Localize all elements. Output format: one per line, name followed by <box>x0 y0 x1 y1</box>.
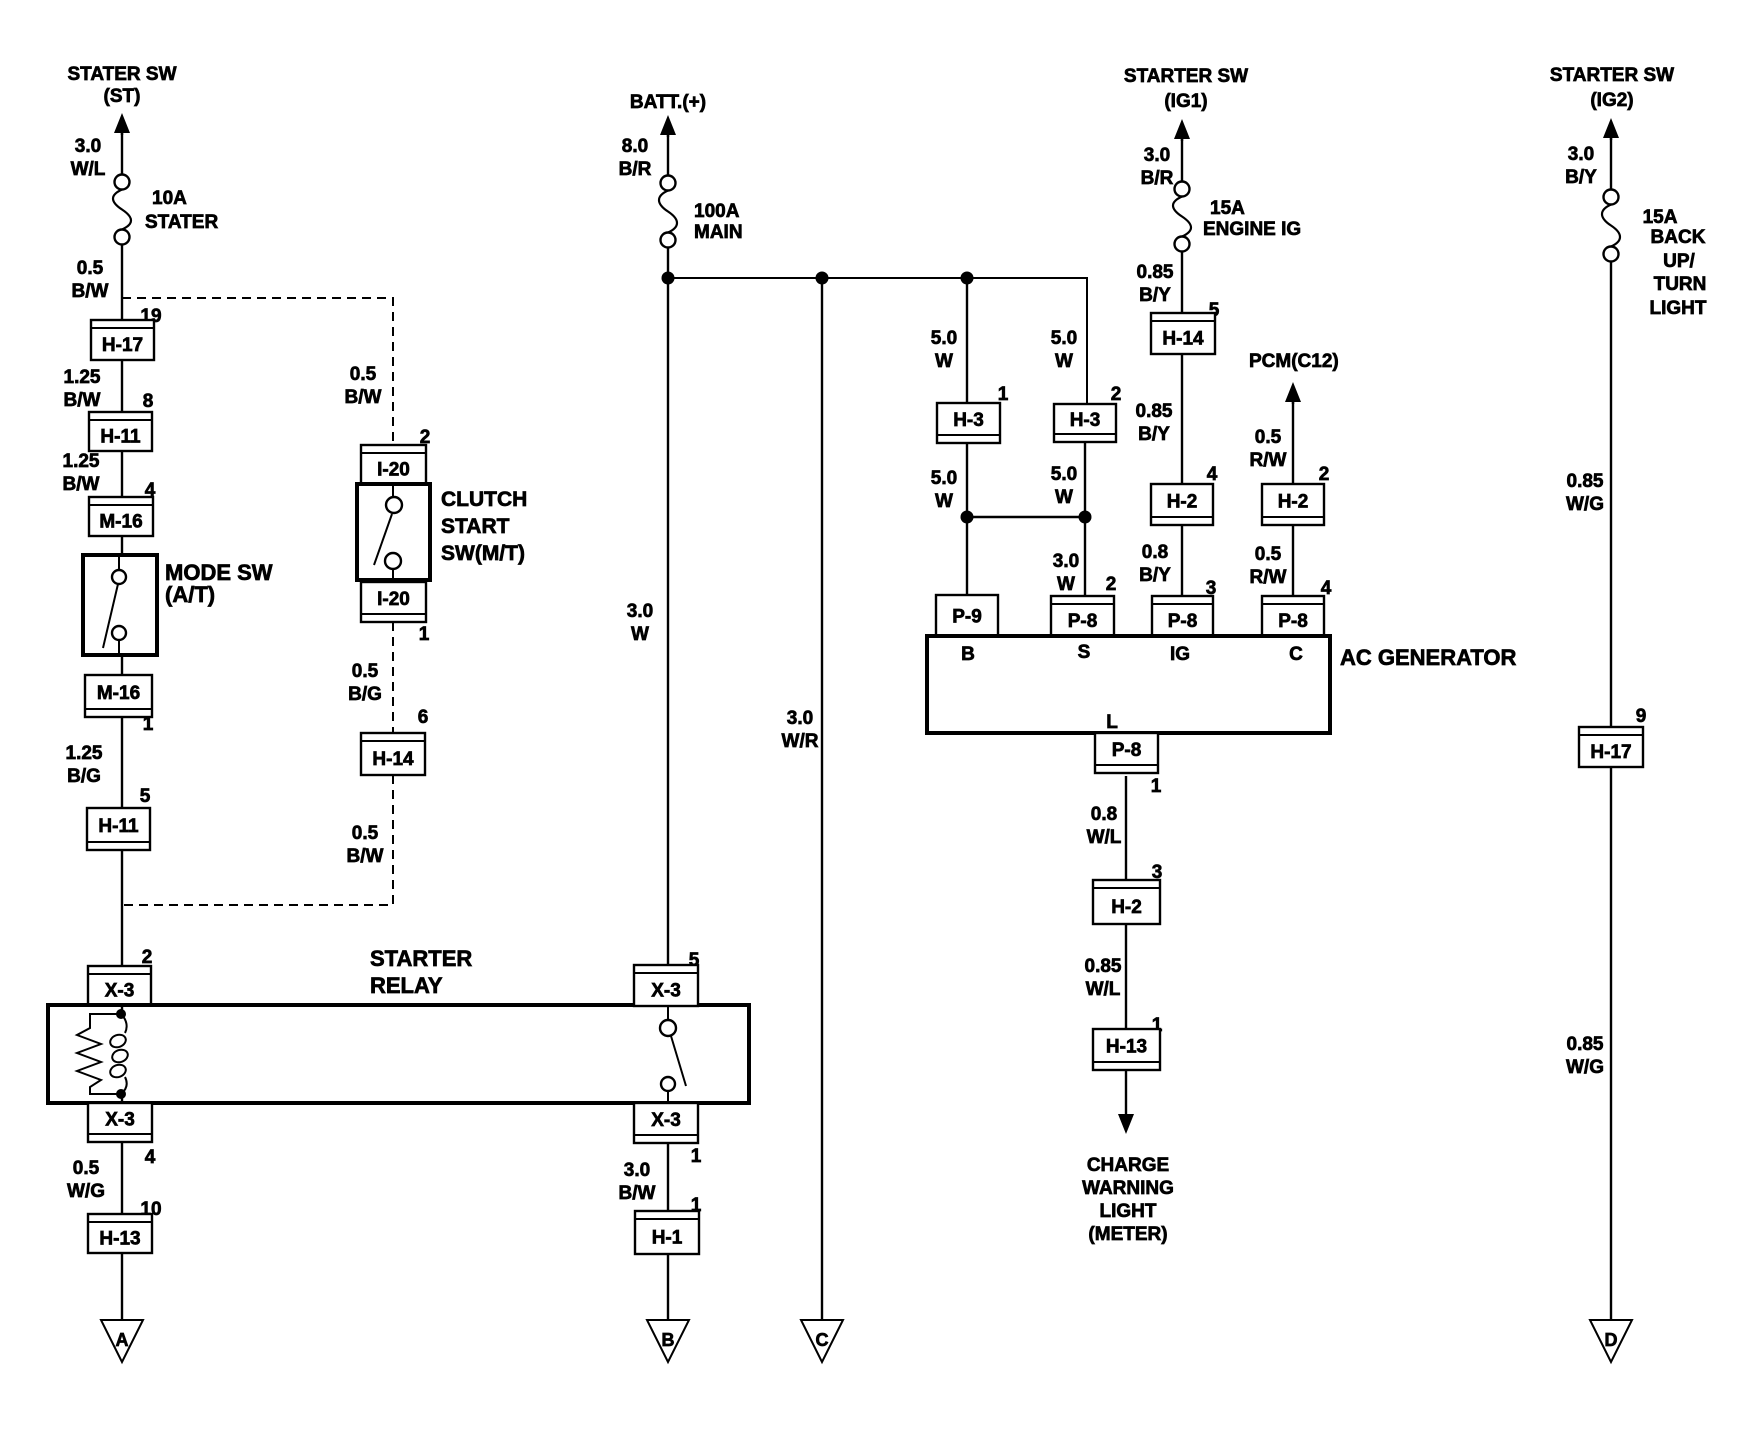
wire BATT column down to relay X-3 pin 5 <box>667 278 669 965</box>
svg-text:X-3: X-3 <box>651 981 681 1002</box>
wire H-14 to H-2 <box>1181 354 1183 484</box>
svg-text:1: 1 <box>143 714 154 735</box>
svg-text:TURN: TURN <box>1654 274 1707 295</box>
pin 1 of H-1 <box>691 1195 702 1216</box>
connector P-8 (IG) <box>1152 596 1213 636</box>
wire label 1.25 B/W <box>64 367 101 411</box>
svg-text:LIGHT: LIGHT <box>1100 1201 1157 1222</box>
svg-text:M-16: M-16 <box>97 683 140 704</box>
connector H-13 (charge) <box>1093 1029 1160 1070</box>
connector M-16 <box>89 497 153 536</box>
svg-text:H-2: H-2 <box>1167 492 1198 513</box>
svg-text:W/L: W/L <box>1087 827 1122 848</box>
svg-text:0.8: 0.8 <box>1142 542 1168 563</box>
wire relay coil top stub <box>121 1005 123 1016</box>
connector X-3 (relay contact top) <box>634 965 698 1006</box>
svg-text:H-17: H-17 <box>1590 742 1631 763</box>
node junction bottom of relay coil <box>116 1089 126 1099</box>
wire P-8 L to H-2 <box>1125 776 1127 880</box>
svg-text:W: W <box>1055 351 1073 372</box>
svg-text:15A: 15A <box>1210 198 1245 219</box>
connector H-1 <box>635 1211 699 1254</box>
svg-text:0.5: 0.5 <box>350 364 377 385</box>
svg-text:M-16: M-16 <box>99 512 142 533</box>
svg-text:I-20: I-20 <box>377 589 410 610</box>
svg-text:B/G: B/G <box>67 766 101 787</box>
connector H-2 (PCM) <box>1262 484 1324 525</box>
pin 1 of X-3 (lower) <box>691 1146 702 1167</box>
pin 5 of H-11 (lower) <box>140 786 151 807</box>
connector X-3 (relay coil bottom) <box>88 1103 152 1142</box>
wire H-1 to ground ref B <box>667 1254 669 1320</box>
svg-text:W: W <box>1055 487 1073 508</box>
svg-text:0.5: 0.5 <box>352 661 379 682</box>
svg-text:0.85: 0.85 <box>1085 956 1122 977</box>
svg-text:L: L <box>1106 712 1118 733</box>
wire label 0.85 W/L <box>1085 956 1122 1000</box>
fuse 15A BACK UP/TURN LIGHT <box>1602 190 1620 262</box>
svg-text:0.85: 0.85 <box>1136 401 1173 422</box>
wire label 3.0 W/R <box>782 708 819 752</box>
svg-text:B/Y: B/Y <box>1139 285 1171 306</box>
terminal S label <box>1078 642 1091 663</box>
svg-text:0.85: 0.85 <box>1567 1034 1604 1055</box>
svg-text:C: C <box>1289 644 1303 665</box>
svg-text:1.25: 1.25 <box>63 451 100 472</box>
svg-text:0.5: 0.5 <box>352 823 379 844</box>
wire H-13 to charge warning light + arrowhead <box>1118 1070 1134 1134</box>
svg-text:X-3: X-3 <box>651 1110 681 1131</box>
relay STARTER RELAY box <box>48 1005 749 1103</box>
svg-text:3.0: 3.0 <box>787 708 813 729</box>
wire H-11 to M-16 <box>121 451 123 497</box>
svg-text:1: 1 <box>691 1146 702 1167</box>
svg-text:(ST): (ST) <box>104 86 141 107</box>
wire H-17 to H-11 <box>121 360 123 412</box>
label 15A BACK UP/ TURN LIGHT <box>1643 207 1707 319</box>
node junction bus at H-3 column <box>961 272 974 285</box>
svg-text:UP/: UP/ <box>1663 251 1695 272</box>
svg-text:W: W <box>631 624 649 645</box>
svg-text:5.0: 5.0 <box>931 468 957 489</box>
svg-text:1.25: 1.25 <box>64 367 101 388</box>
svg-text:H-17: H-17 <box>102 335 143 356</box>
wire label 0.5 B/W <box>72 258 109 302</box>
svg-text:3.0: 3.0 <box>624 1160 650 1181</box>
connector I-20 (upper) <box>361 445 426 484</box>
wire label 0.85 W/G (1) <box>1566 471 1604 515</box>
svg-text:LIGHT: LIGHT <box>1650 298 1707 319</box>
connector P-8 (C) <box>1262 596 1324 636</box>
label STARTER RELAY <box>370 946 472 998</box>
wire label 3.0 B/Y <box>1565 144 1597 188</box>
svg-text:X-3: X-3 <box>105 1110 135 1131</box>
svg-text:W/G: W/G <box>67 1181 105 1202</box>
svg-text:CHARGE: CHARGE <box>1087 1155 1169 1176</box>
wire X-3 to H-13 <box>121 1142 123 1214</box>
wire bus to H-3 pin 1 <box>966 278 968 403</box>
pin 1 of P-8 (L) <box>1151 776 1162 797</box>
svg-text:H-1: H-1 <box>652 1228 683 1249</box>
node ground ref C <box>801 1320 843 1362</box>
svg-text:1.25: 1.25 <box>66 743 103 764</box>
dashed wire branch to clutch start switch (upper) <box>122 298 393 445</box>
node ground ref D <box>1590 1320 1632 1362</box>
connector H-3 (1) <box>937 403 1000 443</box>
wire label 5.0 W (2) <box>931 468 957 512</box>
switch CLUTCH START SW (M/T) <box>357 484 430 580</box>
svg-text:0.85: 0.85 <box>1567 471 1604 492</box>
svg-text:P-8: P-8 <box>1168 611 1198 632</box>
svg-text:3.0: 3.0 <box>1053 551 1079 572</box>
connector I-20 (lower) <box>361 582 426 622</box>
svg-text:3.0: 3.0 <box>75 136 101 157</box>
svg-text:H-2: H-2 <box>1111 897 1142 918</box>
svg-text:SW(M/T): SW(M/T) <box>441 542 525 565</box>
wire label 1.25 B/G <box>66 743 103 787</box>
wire label 1.25 B/W (2) <box>63 451 100 495</box>
connector X-3 (relay contact bottom) <box>634 1103 698 1143</box>
pin 10 of H-13 <box>140 1199 161 1220</box>
wire fuse to bus junction <box>667 248 669 278</box>
svg-text:B/W: B/W <box>63 474 100 495</box>
svg-text:8.0: 8.0 <box>622 136 648 157</box>
svg-text:H-3: H-3 <box>953 410 984 431</box>
connector H-2 (charge) <box>1093 880 1160 924</box>
svg-text:B/W: B/W <box>619 1183 656 1204</box>
pin 19 of H-17 <box>140 306 161 327</box>
pin 4 of X-3 (lower) <box>145 1147 156 1168</box>
wire label 3.0 B/R <box>1141 145 1174 189</box>
svg-text:B: B <box>662 1330 675 1350</box>
connector H-14 (IG1) <box>1151 313 1215 354</box>
svg-text:2: 2 <box>1319 464 1330 485</box>
wire BATT to fuse 100A <box>667 133 669 175</box>
node ground ref B <box>647 1320 689 1362</box>
switch MODE SW (A/T) <box>83 555 157 655</box>
svg-text:2: 2 <box>1106 574 1117 595</box>
node PCM(C12) label <box>1249 351 1339 372</box>
pin 5 of X-3 (relay contact top) <box>689 950 700 971</box>
label 10A STATER <box>145 188 218 233</box>
wire H-2 to H-13 <box>1125 924 1127 1029</box>
pin 2 of X-3 <box>142 947 153 968</box>
svg-text:S: S <box>1078 642 1091 663</box>
wire H-13 to ground ref A <box>121 1253 123 1320</box>
svg-text:5.0: 5.0 <box>931 328 957 349</box>
wire label 0.5 R/W (1) <box>1250 427 1287 471</box>
svg-text:(IG1): (IG1) <box>1164 91 1207 112</box>
wire H-17 to ground ref D <box>1610 767 1612 1320</box>
svg-text:H-3: H-3 <box>1070 410 1101 431</box>
wire junction to P-8 S <box>1084 517 1086 596</box>
arrowhead to STARTER SW (ST) <box>114 113 130 135</box>
svg-text:6: 6 <box>418 707 429 728</box>
svg-text:AC GENERATOR: AC GENERATOR <box>1340 645 1517 670</box>
svg-text:H-11: H-11 <box>100 427 141 448</box>
connector H-14 (clutch branch) <box>361 733 425 775</box>
svg-text:(METER): (METER) <box>1088 1224 1167 1245</box>
wire STARTER SW to fuse 10A <box>121 131 123 174</box>
svg-text:2: 2 <box>1111 384 1122 405</box>
svg-text:5: 5 <box>140 786 151 807</box>
svg-text:C: C <box>816 1330 829 1350</box>
wire power bus <box>668 278 1087 404</box>
wire label 5.0 W (1) <box>931 328 957 372</box>
arrowhead to STARTER SW (IG2) <box>1603 118 1619 140</box>
svg-text:PCM(C12): PCM(C12) <box>1249 351 1339 372</box>
wire H-2 to P-8 IG <box>1181 525 1183 596</box>
pin 8 of H-11 <box>143 391 154 412</box>
resistor relay (internal) <box>77 1014 121 1094</box>
arrowhead to STARTER SW (IG1) <box>1174 119 1190 141</box>
label CLUTCH START SW(M/T) <box>441 488 527 565</box>
wire H-2 to P-8 C <box>1292 525 1294 596</box>
svg-text:W: W <box>1057 574 1075 595</box>
svg-text:B: B <box>961 644 975 665</box>
wire label 0.5 B/W (clutch branch) <box>345 364 382 408</box>
pin 4 of M-16 <box>145 480 156 501</box>
wire label 0.5 B/G <box>348 661 382 705</box>
arrowhead to PCM(C12) <box>1285 382 1301 404</box>
pin 3 of P-8 (IG) <box>1206 578 1217 599</box>
svg-text:B/G: B/G <box>348 684 382 705</box>
svg-text:W/G: W/G <box>1566 1057 1604 1078</box>
label CHARGE WARNING LIGHT (METER) <box>1082 1155 1174 1245</box>
svg-text:W/L: W/L <box>1086 979 1121 1000</box>
svg-text:4: 4 <box>145 1147 156 1168</box>
fuse 100A MAIN <box>659 176 677 248</box>
node STARTER SW (IG1) label <box>1124 66 1248 112</box>
svg-text:1: 1 <box>1151 776 1162 797</box>
wire label 3.0 B/W <box>619 1160 656 1204</box>
svg-text:0.5: 0.5 <box>77 258 104 279</box>
connector H-3 (2) <box>1054 404 1116 442</box>
svg-text:0.5: 0.5 <box>73 1158 100 1179</box>
node ground ref A <box>101 1320 143 1362</box>
connector P-9 <box>936 595 998 636</box>
svg-text:B/W: B/W <box>64 390 101 411</box>
fuse 15A ENGINE IG <box>1173 182 1191 252</box>
svg-text:B/Y: B/Y <box>1565 167 1597 188</box>
svg-text:STARTER SW: STARTER SW <box>1124 66 1248 87</box>
svg-text:H-14: H-14 <box>1162 329 1204 350</box>
wire fuse to H-17 pin 9 <box>1610 262 1612 727</box>
wire label 0.85 B/Y (2) <box>1136 401 1173 445</box>
svg-text:8: 8 <box>143 391 154 412</box>
wire H-2 to PCM <box>1292 400 1294 484</box>
svg-text:IG: IG <box>1170 644 1190 665</box>
wire label 5.0 W (4) <box>1051 464 1077 508</box>
wire label 0.5 R/W (2) <box>1250 544 1287 588</box>
wire label 0.85 B/Y (1) <box>1137 262 1174 306</box>
svg-text:B/W: B/W <box>347 846 384 867</box>
label AC GENERATOR <box>1340 645 1517 670</box>
label MODE SW (A/T) <box>165 560 273 607</box>
wire IG2 to fuse 15A <box>1610 136 1612 189</box>
svg-text:CLUTCH: CLUTCH <box>441 488 527 511</box>
svg-text:START: START <box>441 515 510 538</box>
wire M-16 to MODE SW <box>121 536 123 555</box>
svg-text:(IG2): (IG2) <box>1590 90 1633 111</box>
wire label 3.0 W <box>627 601 653 645</box>
svg-text:H-11: H-11 <box>98 816 139 837</box>
svg-text:5.0: 5.0 <box>1051 328 1077 349</box>
wire label 3.0 W (S) <box>1053 551 1079 595</box>
svg-text:A: A <box>116 1330 129 1350</box>
svg-text:10A: 10A <box>152 188 187 209</box>
svg-text:100A: 100A <box>694 201 740 222</box>
wire label 3.0 W/L <box>71 136 106 180</box>
pin 9 of H-17 (IG2) <box>1636 706 1647 727</box>
node junction bus at column C <box>816 272 829 285</box>
svg-text:B/Y: B/Y <box>1138 424 1170 445</box>
wire fuse to connector H-17 <box>121 245 123 320</box>
svg-text:STATER: STATER <box>145 212 218 233</box>
svg-text:BACK: BACK <box>1651 227 1706 248</box>
pin 2 of P-8 (S) <box>1106 574 1117 595</box>
connector H-13 <box>88 1214 152 1253</box>
node STARTER SW (IG2) label <box>1550 65 1674 111</box>
node BATT.(+) label <box>630 92 706 113</box>
svg-text:W/L: W/L <box>71 159 106 180</box>
label 100A MAIN <box>694 201 743 243</box>
dashed wire I-20 to H-14 <box>392 622 394 733</box>
connector P-8 (S) <box>1051 596 1114 636</box>
wire H-3 (2) to junction <box>1084 442 1086 517</box>
pin 1 of I-20 (lower) <box>419 624 430 645</box>
pin 3 of H-2 (charge) <box>1152 862 1163 883</box>
svg-text:H-13: H-13 <box>1106 1037 1147 1058</box>
svg-text:3.0: 3.0 <box>1144 145 1170 166</box>
svg-text:15A: 15A <box>1643 207 1678 228</box>
svg-text:RELAY: RELAY <box>370 973 443 998</box>
connector H-17 <box>91 320 154 360</box>
connector H-2 (IG1) <box>1151 484 1213 525</box>
svg-text:4: 4 <box>1207 464 1218 485</box>
pin 1 of M-16 (lower) <box>143 714 154 735</box>
wire junction link between generator columns <box>967 516 1085 518</box>
wire label 0.5 B/W (clutch branch lower) <box>347 823 384 867</box>
wire H-11 to X-3 pin 2 <box>121 850 123 966</box>
connector M-16 (lower) <box>85 675 152 717</box>
dashed wire H-14 to junction with column A (lower) <box>122 775 393 905</box>
pin 4 of P-8 (C) <box>1321 578 1332 599</box>
terminal B label <box>961 644 975 665</box>
node STARTER SW (ST) label <box>67 64 176 107</box>
svg-text:W: W <box>935 491 953 512</box>
svg-text:R/W: R/W <box>1250 567 1287 588</box>
svg-text:STARTER: STARTER <box>370 946 472 971</box>
inductor relay coil (internal) <box>108 1014 129 1094</box>
svg-text:W/R: W/R <box>782 731 819 752</box>
pin 1 of H-3 <box>998 384 1009 405</box>
svg-text:R/W: R/W <box>1250 450 1287 471</box>
wire junction to P-9 <box>966 517 968 595</box>
terminal L label <box>1106 712 1118 733</box>
pin 2 of H-3 <box>1111 384 1122 405</box>
label 15A ENGINE IG <box>1203 198 1301 240</box>
svg-text:H-2: H-2 <box>1278 492 1309 513</box>
svg-text:X-3: X-3 <box>105 981 135 1002</box>
svg-text:P-9: P-9 <box>952 607 982 628</box>
svg-text:MAIN: MAIN <box>694 222 743 243</box>
wire IG1 to fuse 15A <box>1181 137 1183 181</box>
svg-text:(A/T): (A/T) <box>165 582 215 607</box>
svg-text:H-13: H-13 <box>99 1229 140 1250</box>
switch relay contact (internal) <box>660 1007 686 1103</box>
svg-text:P-8: P-8 <box>1068 611 1098 632</box>
connector X-3 (relay coil top) <box>88 966 151 1005</box>
connector H-11 <box>89 412 152 451</box>
node junction below H-3 pin1 <box>961 511 974 524</box>
wire M-16 to H-11 <box>121 717 123 808</box>
svg-text:0.85: 0.85 <box>1137 262 1174 283</box>
svg-text:1: 1 <box>419 624 430 645</box>
wire bus to ground ref C <box>821 278 823 1320</box>
svg-text:P-8: P-8 <box>1112 740 1142 761</box>
svg-text:STATER SW: STATER SW <box>67 64 176 85</box>
svg-text:B/R: B/R <box>1141 168 1174 189</box>
pin 5 of H-14 <box>1209 300 1220 321</box>
wire X-3 to H-1 <box>667 1143 669 1211</box>
wire label 0.5 W/G <box>67 1158 105 1202</box>
wire label 0.8 W/L <box>1087 804 1122 848</box>
node junction below H-3 pin2 <box>1079 511 1092 524</box>
svg-text:9: 9 <box>1636 706 1647 727</box>
arrowhead to BATT.(+) <box>660 115 676 137</box>
wire label 8.0 B/R <box>619 136 652 180</box>
pin 2 of I-20 <box>420 427 431 448</box>
svg-text:BATT.(+): BATT.(+) <box>630 92 706 113</box>
wire label 0.85 W/G (2) <box>1566 1034 1604 1078</box>
connector H-11 (lower) <box>87 808 150 850</box>
wire relay coil bottom stub <box>121 1094 123 1103</box>
wire fuse to H-14 <box>1181 252 1183 313</box>
svg-text:W/G: W/G <box>1566 494 1604 515</box>
connector P-8 (L) <box>1095 733 1158 773</box>
svg-text:3.0: 3.0 <box>1568 144 1594 165</box>
svg-text:B/R: B/R <box>619 159 652 180</box>
svg-text:WARNING: WARNING <box>1082 1178 1174 1199</box>
pin 1 of H-13 (charge) <box>1152 1015 1163 1036</box>
pin 4 of H-2 <box>1207 464 1218 485</box>
svg-text:0.5: 0.5 <box>1255 427 1282 448</box>
pin 6 of H-14 (clutch branch) <box>418 707 429 728</box>
terminal IG label <box>1170 644 1190 665</box>
connector H-17 (IG2) <box>1579 727 1643 767</box>
wire label 0.8 B/Y <box>1139 542 1171 586</box>
wire H-3 to junction <box>966 443 968 517</box>
svg-text:P-8: P-8 <box>1278 611 1308 632</box>
wire MODE SW to M-16 <box>121 655 123 675</box>
svg-text:ENGINE IG: ENGINE IG <box>1203 219 1301 240</box>
svg-text:D: D <box>1605 1330 1618 1350</box>
svg-text:H-14: H-14 <box>372 749 414 770</box>
svg-text:0.8: 0.8 <box>1091 804 1117 825</box>
fuse 10A STATER <box>113 175 131 245</box>
svg-text:STARTER SW: STARTER SW <box>1550 65 1674 86</box>
svg-text:I-20: I-20 <box>377 460 410 481</box>
pin 2 of H-2 (PCM) <box>1319 464 1330 485</box>
node junction bus at BATT column <box>662 272 675 285</box>
svg-text:B/W: B/W <box>345 387 382 408</box>
svg-text:B/Y: B/Y <box>1139 565 1171 586</box>
svg-text:5.0: 5.0 <box>1051 464 1077 485</box>
svg-text:3.0: 3.0 <box>627 601 653 622</box>
svg-text:B/W: B/W <box>72 281 109 302</box>
svg-text:W: W <box>935 351 953 372</box>
